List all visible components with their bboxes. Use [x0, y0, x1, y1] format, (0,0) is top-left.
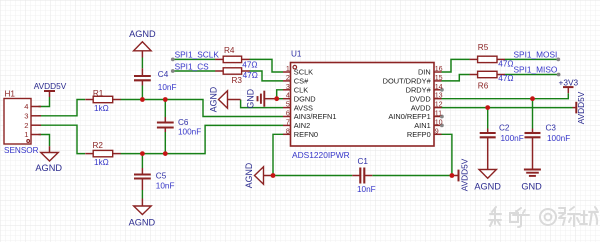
svg-text:CLK: CLK	[294, 86, 308, 95]
svg-text:1: 1	[286, 65, 290, 73]
svg-text:10nF: 10nF	[158, 83, 177, 92]
svg-text:9: 9	[435, 127, 439, 135]
svg-text:2: 2	[286, 74, 290, 82]
svg-text:CS#: CS#	[294, 77, 309, 86]
svg-text:AGND: AGND	[129, 217, 156, 227]
svg-text:DOUT/DRDY#: DOUT/DRDY#	[383, 77, 432, 86]
svg-text:AGND: AGND	[474, 182, 501, 192]
svg-text:13: 13	[435, 92, 443, 100]
svg-text:AVDD5V: AVDD5V	[460, 158, 470, 191]
svg-text:ADS1220IPWR: ADS1220IPWR	[292, 150, 350, 160]
svg-text:47Ω: 47Ω	[242, 60, 257, 69]
svg-text:DGND: DGND	[294, 94, 316, 103]
svg-text:R4: R4	[224, 46, 235, 55]
svg-text:47Ω: 47Ω	[243, 71, 258, 80]
svg-text:REFN0: REFN0	[294, 130, 318, 139]
svg-text:3: 3	[286, 83, 290, 91]
svg-text:REFP0: REFP0	[407, 130, 431, 139]
svg-text:4: 4	[24, 102, 28, 111]
svg-text:C1: C1	[358, 157, 369, 166]
svg-text:100nF: 100nF	[178, 128, 201, 137]
svg-text:SPI1_CS: SPI1_CS	[175, 61, 210, 71]
svg-text:R3: R3	[232, 76, 243, 85]
svg-text:4: 4	[286, 92, 290, 100]
svg-text:12: 12	[435, 101, 443, 109]
svg-text:U1: U1	[291, 49, 302, 58]
svg-text:47Ω: 47Ω	[498, 59, 513, 68]
svg-text:10nF: 10nF	[357, 185, 376, 194]
svg-text:10: 10	[435, 118, 443, 126]
svg-text:AGND: AGND	[129, 29, 156, 39]
svg-text:AIN2: AIN2	[294, 121, 310, 130]
svg-text:R1: R1	[93, 89, 104, 98]
svg-text:H1: H1	[5, 90, 16, 99]
svg-text:DRDY#: DRDY#	[406, 86, 432, 95]
svg-text:SENSOR: SENSOR	[4, 146, 39, 155]
svg-text:1kΩ: 1kΩ	[94, 158, 109, 167]
svg-text:DIN: DIN	[418, 68, 431, 77]
svg-text:100nF: 100nF	[547, 134, 570, 143]
svg-text:DVDD: DVDD	[410, 94, 431, 103]
svg-text:11: 11	[435, 110, 442, 118]
svg-text:15: 15	[435, 74, 443, 82]
svg-text:3: 3	[24, 112, 28, 121]
svg-text:GND: GND	[521, 182, 542, 192]
svg-text:SPI1_MISO: SPI1_MISO	[514, 65, 558, 75]
svg-text:C4: C4	[158, 70, 169, 79]
svg-text:SCLK: SCLK	[294, 68, 313, 77]
svg-text:8: 8	[286, 127, 290, 135]
svg-text:AGND: AGND	[209, 87, 219, 112]
svg-text:C3: C3	[546, 124, 557, 133]
svg-text:AIN1: AIN1	[414, 121, 430, 130]
svg-text:AIN0/REFP1: AIN0/REFP1	[388, 112, 430, 121]
svg-text:GND: GND	[246, 89, 256, 109]
svg-text:R2: R2	[93, 141, 104, 150]
svg-text:14: 14	[435, 83, 443, 91]
svg-text:47Ω: 47Ω	[498, 74, 513, 83]
svg-text:1kΩ: 1kΩ	[94, 104, 109, 113]
svg-text:SPI1_MOSI: SPI1_MOSI	[514, 50, 558, 60]
svg-text:C2: C2	[499, 124, 510, 133]
svg-text:+3V3: +3V3	[558, 77, 578, 87]
svg-text:AGND: AGND	[244, 163, 254, 188]
svg-text:100nF: 100nF	[501, 134, 524, 143]
svg-text:2: 2	[24, 121, 28, 130]
svg-text:AVSS: AVSS	[294, 103, 313, 112]
svg-text:16: 16	[435, 65, 443, 73]
svg-text:6: 6	[286, 110, 290, 118]
svg-text:SPI1_SCLK: SPI1_SCLK	[175, 50, 220, 60]
svg-text:R5: R5	[478, 43, 489, 52]
svg-text:AVDD5V: AVDD5V	[576, 91, 586, 124]
svg-text:AIN3/REFN1: AIN3/REFN1	[294, 112, 337, 121]
svg-text:AGND: AGND	[35, 163, 62, 173]
svg-text:R6: R6	[478, 82, 489, 91]
svg-text:7: 7	[286, 118, 290, 126]
svg-text:C6: C6	[178, 118, 189, 127]
svg-text:1: 1	[24, 130, 28, 139]
svg-text:AVDD5V: AVDD5V	[34, 81, 67, 91]
svg-text:5: 5	[286, 101, 290, 109]
svg-text:AVDD: AVDD	[411, 103, 431, 112]
svg-text:C5: C5	[156, 171, 167, 180]
svg-text:10nF: 10nF	[156, 182, 175, 191]
